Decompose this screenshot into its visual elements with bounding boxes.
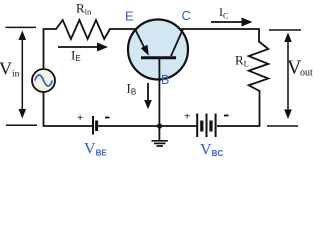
sine wave — [35, 75, 53, 86]
wire: R_L bottom — [259, 90, 261, 126]
svg-text:+: + — [184, 111, 190, 123]
V_out measure bottom bar — [267, 125, 298, 127]
wire: collector to R_L top — [181, 29, 259, 43]
battery V_BC plate 2 short — [200, 121, 203, 132]
V_out measure arrow — [287, 35, 289, 115]
ground — [158, 126, 160, 141]
wire: R_in to transistor emitter — [109, 28, 136, 30]
wire: junction to V_BC — [160, 125, 197, 127]
resistor R_L — [249, 42, 269, 92]
svg-text:E: E — [125, 9, 134, 24]
wire: source bottom to ground rail — [44, 92, 93, 126]
battery V_BE long plate — [92, 116, 94, 135]
V_in measure bottom bar — [6, 124, 37, 126]
current arrow I_E — [58, 46, 99, 48]
collector lead — [171, 29, 183, 56]
transistor Q1 body — [128, 20, 188, 80]
V_out measure top bar — [269, 29, 301, 31]
wire: V_BE to base junction — [97, 125, 160, 127]
emitter lead with arrow — [135, 29, 146, 51]
svg-text:+: + — [77, 112, 83, 124]
V_in measure top bar — [6, 26, 37, 28]
wire: source top corner to R_in — [44, 29, 58, 68]
base lead — [158, 58, 160, 127]
V_in measure arrow — [21, 33, 23, 115]
base bar — [141, 56, 176, 59]
junction dot — [157, 123, 162, 128]
minus sign V_BE — [105, 117, 110, 119]
battery V_BC plate 3 long — [206, 114, 208, 138]
minus sign V_BC — [224, 115, 229, 117]
wire: V_BC to bottom right corner — [217, 125, 260, 127]
resistor R_in — [56, 20, 110, 39]
battery V_BC plate 5 long — [215, 114, 217, 138]
battery V_BC plate 1 long — [196, 114, 198, 138]
battery V_BC plate 4 short — [209, 121, 212, 132]
battery V_BE short plate — [95, 121, 98, 132]
svg-text:C: C — [182, 8, 191, 23]
current arrow I_C — [211, 21, 243, 23]
current arrow I_B — [147, 83, 149, 101]
svg-text:B: B — [161, 73, 169, 87]
AC source V_in — [32, 69, 55, 92]
